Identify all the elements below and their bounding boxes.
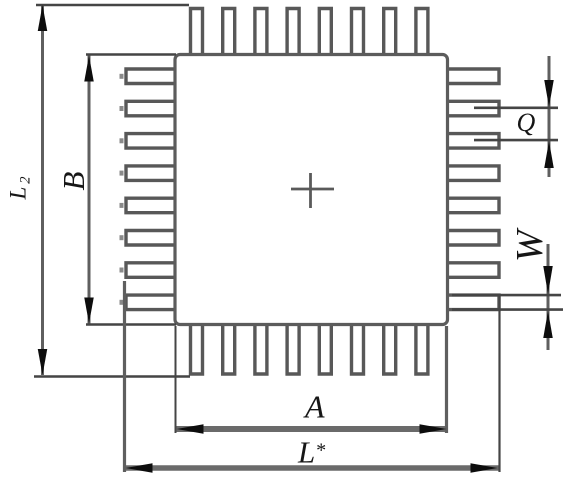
- svg-text:B: B: [56, 172, 91, 191]
- svg-text:W: W: [509, 227, 551, 262]
- svg-text:A: A: [303, 389, 325, 425]
- svg-text:Q: Q: [517, 108, 536, 137]
